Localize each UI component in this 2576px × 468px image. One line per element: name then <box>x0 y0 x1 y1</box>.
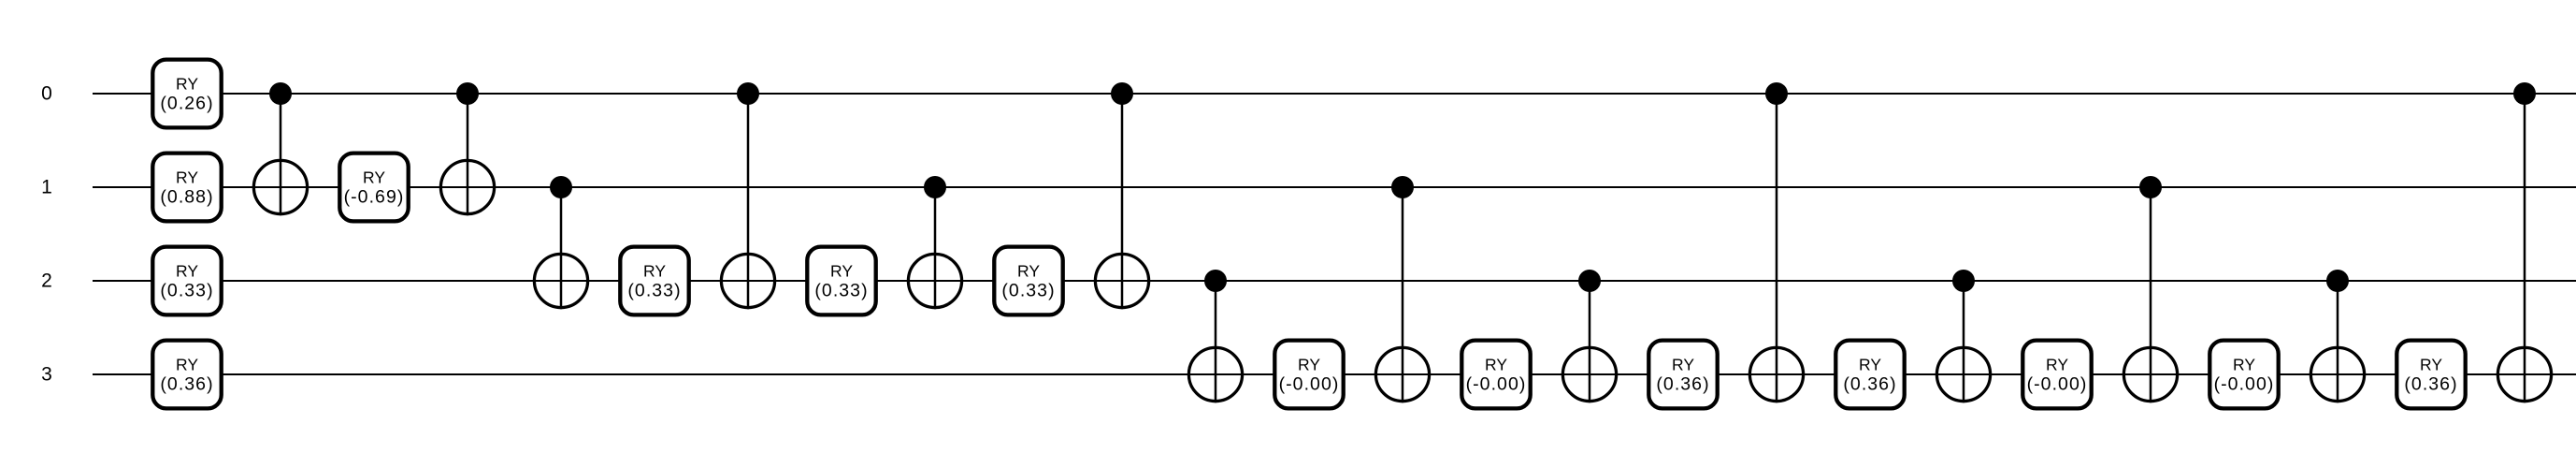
svg-text:(-0.00): (-0.00) <box>2214 374 2275 395</box>
target XOR circle on q1 <box>253 160 307 213</box>
wire: vertical connector q2 to q3 <box>1589 281 1591 402</box>
svg-text:(0.36): (0.36) <box>160 374 213 395</box>
wire q0 <box>93 93 2576 95</box>
CNOT column 18: control q0, target q3 <box>1749 82 1803 402</box>
svg-text:RY: RY <box>176 355 198 373</box>
svg-text:0: 0 <box>41 83 52 105</box>
gate RY(0.36) on qubit 3, column 25 <box>2396 341 2465 409</box>
target XOR circle on q3 <box>2123 347 2177 401</box>
control dot on q2 <box>1204 270 1227 292</box>
CNOT column 2: control q0, target q1 <box>253 82 307 215</box>
target XOR circle on q3 <box>1375 347 1429 401</box>
svg-text:RY: RY <box>1485 355 1507 373</box>
gate RY(0.33) on qubit 2, column 6 <box>620 247 688 315</box>
svg-text:(0.26): (0.26) <box>160 94 213 114</box>
svg-text:RY: RY <box>176 168 198 186</box>
svg-text:(0.33): (0.33) <box>1001 281 1055 301</box>
svg-text:(0.33): (0.33) <box>160 281 213 301</box>
control dot on q0 <box>1765 82 1788 105</box>
gate RY(0.88) on qubit 1, column 1 <box>152 154 221 222</box>
svg-text:RY: RY <box>643 261 666 280</box>
svg-text:2: 2 <box>41 271 52 292</box>
wire: vertical connector q2 to q3 <box>1963 281 1965 402</box>
control dot on q0 <box>737 82 759 105</box>
gate RY(0.33) on qubit 2, column 10 <box>994 247 1062 315</box>
control dot on q0 <box>2513 82 2536 105</box>
svg-text:3: 3 <box>41 364 52 386</box>
wire: vertical connector q0 to q2 <box>747 94 750 309</box>
wire q2 <box>93 280 2576 282</box>
svg-text:RY: RY <box>363 168 385 186</box>
gate RY(-0.00) on qubit 3, column 13 <box>1274 341 1343 409</box>
target XOR circle on q2 <box>908 254 961 307</box>
control dot on q0 <box>456 82 479 105</box>
target XOR circle on q2 <box>534 254 587 307</box>
target XOR circle on q2 <box>1095 254 1148 307</box>
gate RY(0.36) on qubit 3, column 1 <box>152 341 221 409</box>
target XOR circle on q3 <box>2310 347 2364 401</box>
svg-text:(-0.69): (-0.69) <box>344 187 405 208</box>
control dot on q0 <box>269 82 292 105</box>
CNOT column 12: control q2, target q3 <box>1188 270 1242 402</box>
control dot on q1 <box>550 176 572 198</box>
control dot on q1 <box>924 176 946 198</box>
CNOT column 16: control q2, target q3 <box>1562 270 1616 402</box>
gate RY(0.26) on qubit 0, column 1 <box>152 60 221 128</box>
svg-text:RY: RY <box>1017 261 1040 280</box>
svg-text:RY: RY <box>2233 355 2255 373</box>
svg-text:RY: RY <box>1859 355 1881 373</box>
gate RY(-0.00) on qubit 3, column 15 <box>1461 341 1530 409</box>
wire: vertical connector q0 to q2 <box>1121 94 1124 309</box>
svg-text:RY: RY <box>176 261 198 280</box>
CNOT column 7: control q0, target q2 <box>721 82 774 309</box>
target XOR circle on q3 <box>1936 347 1990 401</box>
svg-text:(-0.00): (-0.00) <box>1466 374 1527 395</box>
target XOR circle on q3 <box>1562 347 1616 401</box>
target XOR circle on q3 <box>1188 347 1242 401</box>
svg-text:(0.36): (0.36) <box>1656 374 1709 395</box>
gate RY(-0.00) on qubit 3, column 23 <box>2209 341 2278 409</box>
CNOT column 11: control q0, target q2 <box>1095 82 1148 309</box>
target XOR circle on q3 <box>1749 347 1803 401</box>
svg-text:RY: RY <box>1298 355 1320 373</box>
svg-text:1: 1 <box>41 177 52 198</box>
svg-text:(0.88): (0.88) <box>160 187 213 208</box>
gate RY(0.36) on qubit 3, column 19 <box>1835 341 1904 409</box>
svg-text:RY: RY <box>176 74 198 93</box>
wire: vertical connector q0 to q3 <box>1776 94 1778 402</box>
target XOR circle on q1 <box>440 160 494 213</box>
wire q3 <box>93 373 2576 375</box>
wire: vertical connector q1 to q2 <box>934 187 937 309</box>
svg-text:(0.36): (0.36) <box>2404 374 2457 395</box>
gate RY(0.33) on qubit 2, column 8 <box>807 247 875 315</box>
control dot on q2 <box>1578 270 1601 292</box>
svg-text:(-0.00): (-0.00) <box>1279 374 1340 395</box>
control dot on q1 <box>2139 176 2162 198</box>
CNOT column 9: control q1, target q2 <box>908 176 961 309</box>
gate RY(-0.69) on qubit 1, column 3 <box>339 154 408 222</box>
wire: vertical connector q0 to q3 <box>2524 94 2526 402</box>
target XOR circle on q2 <box>721 254 774 307</box>
gate RY(-0.00) on qubit 3, column 21 <box>2022 341 2091 409</box>
CNOT column 24: control q2, target q3 <box>2310 270 2364 402</box>
control dot on q2 <box>1952 270 1975 292</box>
wire: vertical connector q1 to q3 <box>2150 187 2152 402</box>
control dot on q1 <box>1391 176 1414 198</box>
svg-text:(0.36): (0.36) <box>1843 374 1896 395</box>
control dot on q0 <box>1111 82 1133 105</box>
CNOT column 22: control q1, target q3 <box>2123 176 2177 402</box>
CNOT column 26: control q0, target q3 <box>2497 82 2551 402</box>
svg-text:(-0.00): (-0.00) <box>2027 374 2088 395</box>
wire: vertical connector q0 to q1 <box>280 94 282 215</box>
svg-text:(0.33): (0.33) <box>627 281 681 301</box>
svg-text:RY: RY <box>2046 355 2068 373</box>
wire: vertical connector q1 to q3 <box>1402 187 1404 402</box>
svg-text:(0.33): (0.33) <box>814 281 868 301</box>
wire: vertical connector q0 to q1 <box>467 94 469 215</box>
wire q1 <box>93 186 2576 188</box>
wire: vertical connector q2 to q3 <box>2337 281 2339 402</box>
CNOT column 4: control q0, target q1 <box>440 82 494 215</box>
control dot on q2 <box>2326 270 2349 292</box>
CNOT column 14: control q1, target q3 <box>1375 176 1429 402</box>
CNOT column 20: control q2, target q3 <box>1936 270 1990 402</box>
wire: vertical connector q1 to q2 <box>560 187 563 309</box>
svg-text:RY: RY <box>830 261 853 280</box>
wire: vertical connector q2 to q3 <box>1215 281 1217 402</box>
svg-text:RY: RY <box>2420 355 2442 373</box>
CNOT column 5: control q1, target q2 <box>534 176 587 309</box>
gate RY(0.36) on qubit 3, column 17 <box>1648 341 1717 409</box>
gate RY(0.33) on qubit 2, column 1 <box>152 247 221 315</box>
svg-text:RY: RY <box>1672 355 1694 373</box>
target XOR circle on q3 <box>2497 347 2551 401</box>
